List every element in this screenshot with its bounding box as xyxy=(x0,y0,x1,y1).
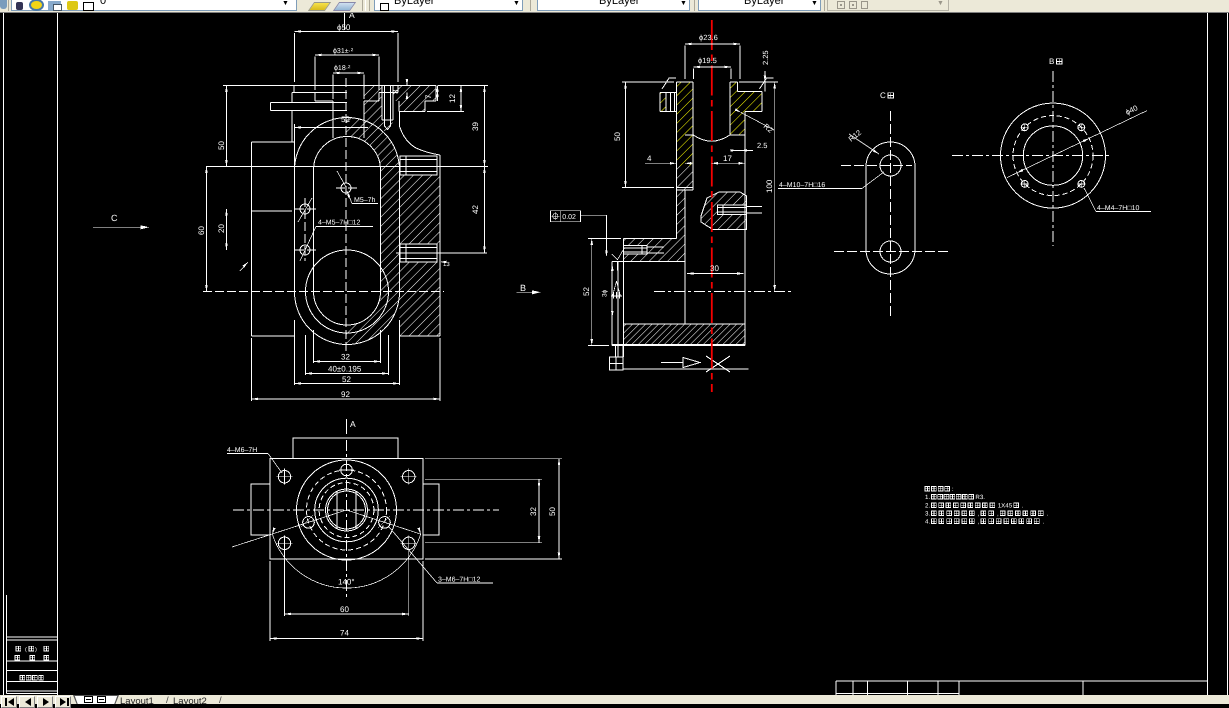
dimension 100 right xyxy=(739,82,778,292)
dimension 52 half xyxy=(295,115,369,170)
leader R2 xyxy=(735,108,775,134)
svg-text:A: A xyxy=(350,419,356,429)
view C arrow xyxy=(93,213,149,229)
view2 white hatch left wall lower xyxy=(676,166,693,239)
view5 bore flats xyxy=(337,491,356,528)
view5 section label A xyxy=(347,419,357,434)
view1 section label A top xyxy=(345,10,356,30)
svg-text:B: B xyxy=(520,283,526,293)
svg-text:M5–7h: M5–7h xyxy=(354,196,376,204)
dimension phi19.5 xyxy=(694,56,732,79)
dimension 12 right xyxy=(427,86,464,112)
dimension 30 xyxy=(687,264,744,275)
roughness check on block top xyxy=(612,249,624,260)
technical notes text block xyxy=(925,486,1049,526)
view4 bolt circle dashed xyxy=(1013,116,1093,196)
view5 top boss xyxy=(293,438,398,459)
view4 centerlines xyxy=(952,71,1112,246)
svg-text:4.: 4. xyxy=(925,519,930,526)
small leader 13 lower right xyxy=(440,261,450,268)
svg-text:39: 39 xyxy=(471,122,480,131)
view1 bottom bore circle xyxy=(306,250,389,333)
view3 centerlines xyxy=(834,111,950,316)
svg-text:1.: 1. xyxy=(925,494,930,501)
view2 yellow hatch right wall and flange xyxy=(730,82,762,135)
layer combo xyxy=(11,0,297,11)
svg-text:ϕ18·²: ϕ18·² xyxy=(334,64,351,72)
dimension 32 right xyxy=(425,479,542,542)
dimension 42 right xyxy=(471,167,486,254)
dimension phi50 xyxy=(295,23,399,82)
view1 hatch wedge left of stud above arc xyxy=(364,101,393,131)
view5 bolt hole lower-right xyxy=(378,516,390,528)
leader 4-M6-7H xyxy=(227,447,282,473)
lineweight combo xyxy=(698,0,821,11)
dimension 20 left xyxy=(217,209,228,250)
view1 lower stud axis xyxy=(396,252,487,254)
view4 phi40 diagonal dimension xyxy=(1007,103,1147,177)
tolerance frame 0.02 xyxy=(551,211,608,257)
svg-text:C: C xyxy=(111,213,118,223)
view1 left bolt hole upper xyxy=(300,204,310,214)
view1 hatch between studs xyxy=(400,175,440,244)
view2 white hatch bottom block xyxy=(623,324,745,345)
layer tool icon 2 xyxy=(333,2,356,11)
view4 label B xyxy=(1049,57,1062,66)
view5 circle r21 xyxy=(326,489,368,531)
view4 bolt hole SE xyxy=(1077,180,1085,188)
svg-text:13: 13 xyxy=(443,261,450,268)
color combo xyxy=(374,0,523,11)
svg-text:(: ( xyxy=(25,647,27,653)
svg-text:2.: 2. xyxy=(925,503,930,510)
view1 left bolt hole lower xyxy=(300,245,310,255)
view3 label C xyxy=(880,91,894,100)
svg-text:): ) xyxy=(35,647,37,653)
svg-text:30: 30 xyxy=(710,264,719,273)
svg-text:3: 3 xyxy=(391,89,400,94)
dimension 4 xyxy=(645,154,693,165)
view2 bottom arrow symbol xyxy=(661,358,700,368)
partial icon far left xyxy=(0,0,7,9)
view2 left block stud xyxy=(623,246,664,255)
view5 bolt hole top xyxy=(339,464,354,476)
view5 140deg arc xyxy=(271,528,422,589)
dimension 2.5 xyxy=(731,141,768,152)
view1 hatch below lower stud xyxy=(400,262,441,336)
toolbar xyxy=(0,0,1229,13)
svg-text:ϕ23.6: ϕ23.6 xyxy=(699,33,718,42)
svg-text:1X45: 1X45 xyxy=(998,503,1013,510)
view1 hatch band between stadiums right xyxy=(347,117,400,292)
svg-text:52: 52 xyxy=(341,115,350,124)
view1 inner stadium chamber xyxy=(314,137,381,326)
svg-text:100: 100 xyxy=(765,179,774,193)
view5 flange circle r50 xyxy=(297,460,397,560)
view2 red centerline xyxy=(711,20,713,392)
view1 centerlines xyxy=(203,78,444,352)
view4 bolt hole SW xyxy=(1021,180,1029,188)
svg-text:0.02: 0.02 xyxy=(562,214,576,221)
sheet border left inner line xyxy=(57,13,59,696)
nav buttons xyxy=(1,696,17,708)
view2 roughness symbol top right xyxy=(760,78,774,89)
view2 plug boss hatched xyxy=(701,192,762,230)
svg-text:60: 60 xyxy=(340,605,349,614)
dimension 74 bottom xyxy=(270,561,423,641)
view1 top vertical tapped hole (black over hatch) xyxy=(382,86,393,130)
view4 bolt hole NE xyxy=(1077,123,1085,131)
svg-text:4–M6–7H: 4–M6–7H xyxy=(227,447,257,454)
view2 yellow hatch left wall upper xyxy=(676,82,693,166)
view2 left flange outline xyxy=(660,93,676,112)
view5 circle r19 xyxy=(328,491,366,529)
dimension 50 left xyxy=(613,82,674,188)
view5 corner hole BR xyxy=(401,535,417,551)
view1 M5 tapped hole top center xyxy=(341,183,351,193)
linetype combo xyxy=(537,0,690,11)
svg-text:R3.: R3. xyxy=(975,494,985,501)
dimension phi31 xyxy=(315,47,379,90)
view5 corner hole BL xyxy=(277,535,293,551)
svg-text:2.5: 2.5 xyxy=(757,141,767,150)
view4 inner circle xyxy=(1023,126,1082,185)
view2 roughness symbol top left xyxy=(662,78,676,89)
svg-text:52: 52 xyxy=(582,287,591,296)
view3 stadium outline xyxy=(866,142,915,274)
svg-text:3ϕ: 3ϕ xyxy=(602,289,609,297)
svg-text:3–M6–7H□12: 3–M6–7H□12 xyxy=(438,577,480,584)
view2 bottom X mark xyxy=(706,356,730,372)
dimension 52 left lower xyxy=(582,239,621,346)
view5 corner hole TL xyxy=(277,469,293,485)
fillet tick left xyxy=(240,261,249,271)
view5 bolt circle r40 dashed xyxy=(307,470,387,550)
view5 centerlines xyxy=(233,440,499,598)
svg-text:17: 17 xyxy=(723,154,732,163)
svg-text:4–M4–7H□10: 4–M4–7H□10 xyxy=(1097,205,1139,212)
dimension 50 right xyxy=(425,459,562,559)
view1 counterbore steps xyxy=(315,86,398,139)
view5 radial line right xyxy=(347,510,421,534)
svg-text:50: 50 xyxy=(613,132,622,141)
view5 corner hole TR xyxy=(401,469,417,485)
layer tool icon 1 xyxy=(308,2,331,11)
plot style combo disabled xyxy=(827,0,949,11)
svg-text:7: 7 xyxy=(424,94,433,99)
dimension 17 xyxy=(712,154,746,165)
view3 leader R12 xyxy=(847,128,880,155)
svg-text:52: 52 xyxy=(342,375,351,384)
svg-text:42: 42 xyxy=(471,205,480,214)
svg-text:B: B xyxy=(1049,57,1054,66)
svg-text:,: , xyxy=(978,511,980,518)
dimension 2.25 top right xyxy=(761,50,770,91)
svg-text:40±0.195: 40±0.195 xyxy=(328,365,362,374)
svg-text:4: 4 xyxy=(647,154,652,163)
view3 lower hole xyxy=(880,241,901,262)
dimension 52 bottom xyxy=(295,320,400,385)
dimension 39 right xyxy=(438,86,488,167)
svg-text:4–M5–7H□12: 4–M5–7H□12 xyxy=(318,220,360,227)
view1 lower stud hole M right xyxy=(400,244,437,262)
svg-text:2.25: 2.25 xyxy=(761,50,770,65)
svg-text:,: , xyxy=(997,511,999,518)
view4 bolt hole NW xyxy=(1021,123,1029,131)
svg-text:.: . xyxy=(1022,503,1024,510)
svg-text:.: . xyxy=(1043,519,1045,526)
svg-text:.: . xyxy=(1047,511,1049,518)
svg-text:32: 32 xyxy=(341,353,350,362)
view5 plate outline xyxy=(270,459,423,559)
view2 horizontal centerline xyxy=(654,291,791,293)
dimension 3 right xyxy=(391,79,408,99)
leader 4-M5-7H deep12 xyxy=(298,198,373,261)
svg-text:4–M10–7H□16: 4–M10–7H□16 xyxy=(779,182,825,189)
view1 stud axis line long xyxy=(206,166,488,168)
small rotated dim 3phi xyxy=(602,264,614,317)
sheet border left outer line xyxy=(3,13,5,696)
view5 circle r31.8 xyxy=(315,478,379,542)
svg-text:ϕ31±·²: ϕ31±·² xyxy=(333,47,354,55)
dimension 92 bottom xyxy=(252,338,441,401)
view5 right tab xyxy=(423,484,439,535)
dimension 60 bottom xyxy=(285,551,409,616)
svg-text:92: 92 xyxy=(341,390,350,399)
view3 upper hole xyxy=(880,155,901,176)
view5 bolt hole lower-left xyxy=(301,515,314,528)
svg-text:ϕ50: ϕ50 xyxy=(337,23,351,32)
leader M5-7h xyxy=(337,171,378,204)
view2 white hatch left block xyxy=(623,239,685,262)
sheet border right line xyxy=(1207,13,1209,696)
view5 circle r27.4 dashed xyxy=(319,483,374,538)
view2 yellow hatch left flange xyxy=(660,93,667,112)
view B arrow xyxy=(517,283,541,294)
model tab active xyxy=(73,695,1223,704)
view1 hatch bottom crescent xyxy=(347,292,400,345)
tab bar xyxy=(0,695,1229,704)
leader 4-M10-7H deep16 xyxy=(778,172,884,189)
svg-text:,: , xyxy=(978,519,980,526)
svg-text:50: 50 xyxy=(217,141,226,150)
svg-text::: : xyxy=(952,486,954,493)
leader 3-M6-7H deep12 xyxy=(389,527,493,584)
svg-text:60: 60 xyxy=(197,226,206,235)
svg-text:ϕ19.5: ϕ19.5 xyxy=(698,56,717,65)
dimension phi23.6 xyxy=(685,33,740,79)
svg-text:74: 74 xyxy=(340,629,349,638)
bottom-right title block xyxy=(836,681,1208,696)
view1 upper stud hole M right xyxy=(400,156,437,175)
svg-text:32: 32 xyxy=(529,507,538,516)
view5 radial line left xyxy=(232,510,347,547)
svg-text:12: 12 xyxy=(448,94,457,103)
dimension phi18 xyxy=(333,64,364,99)
view1 outer stadium chamber xyxy=(295,118,400,345)
view4 leader 4-M4-7H deep10 xyxy=(1084,188,1151,212)
dimension 7 right xyxy=(424,86,439,102)
view1 hatch top-right region xyxy=(364,86,436,112)
dimension 50 left xyxy=(217,86,294,167)
view1 body outline xyxy=(252,86,441,337)
view2 lower body outline xyxy=(610,239,749,371)
dimension 40±0.195 bottom xyxy=(306,335,389,375)
rotated roughness symbol with stem xyxy=(611,262,622,299)
svg-text:3.: 3. xyxy=(925,511,930,518)
bottom-left attachment table xyxy=(6,595,57,694)
svg-text:C: C xyxy=(880,91,886,100)
view2 outline neck xyxy=(676,82,762,346)
view5 left tab xyxy=(251,484,270,535)
view4 outer circle xyxy=(1001,103,1106,208)
dimension 60 left xyxy=(197,167,208,292)
svg-text:50: 50 xyxy=(548,507,557,516)
sheet border right edge line xyxy=(1227,13,1229,696)
svg-text:20: 20 xyxy=(217,224,226,233)
dimension 32 bottom xyxy=(314,330,381,363)
